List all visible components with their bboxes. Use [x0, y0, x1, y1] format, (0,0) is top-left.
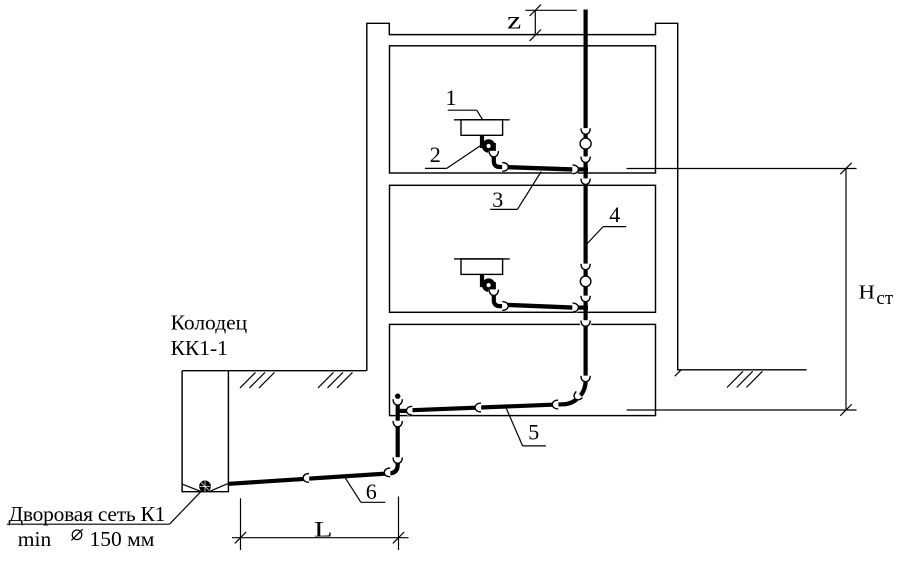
stub into stack floor 3 [577, 167, 589, 171]
bell at branch inlet floor 3 [502, 162, 508, 172]
washbasin floor 3 (label 1) [454, 120, 510, 136]
riser top cap dot [395, 394, 400, 399]
bell at stack tee floor 2 [572, 303, 578, 313]
text min 150 mm with diameter symbol [18, 527, 155, 551]
dimension z: vertical line, top extension, ticks [525, 5, 576, 41]
dimension H_ct: vertical line, extensions, ticks [627, 163, 857, 416]
bell on stack base elbow [572, 391, 583, 402]
svg-text:min: min [18, 527, 52, 551]
tee stub at outlet riser [398, 409, 408, 413]
svg-text:1: 1 [446, 85, 457, 110]
stack socket below revision, floor 2 [580, 296, 591, 302]
svg-text:ст: ст [876, 288, 893, 309]
text Dvorovaya set K1 with underline leader to well [7, 489, 204, 526]
svg-text:2: 2 [430, 142, 441, 167]
bell at outlet pipe right end [552, 400, 558, 410]
room floor 1 (bottom) [390, 324, 656, 415]
socket on riser above elbow [392, 457, 403, 463]
svg-text:5: 5 [528, 420, 539, 445]
building outline with parapets and right ground line [367, 23, 807, 371]
stub into stack floor 2 [577, 306, 589, 310]
stack socket above basement elbow [580, 376, 591, 382]
text Kolodec KK1-1 [171, 311, 248, 361]
svg-text:Н: Н [859, 282, 876, 304]
label 1 with leader [446, 85, 484, 121]
stack socket above revision, floor 3 [580, 128, 591, 134]
bell at yard pipe right end [384, 468, 390, 478]
svg-text:4: 4 [609, 202, 620, 227]
svg-text:z: z [507, 8, 521, 35]
ground hatching right group [727, 371, 762, 387]
bell at branch inlet floor 2 [502, 301, 508, 311]
svg-text:6: 6 [366, 479, 377, 504]
svg-text:Колодец: Колодец [171, 311, 248, 335]
label 6 with leader [345, 478, 385, 504]
label 3 with leader [490, 172, 541, 212]
socket mid outlet pipe 5 [475, 403, 481, 413]
stack socket in floor slab 3/2 [580, 178, 591, 184]
ground tick at right wall base [675, 370, 681, 376]
stack socket in floor slab 2/1 [580, 320, 591, 326]
svg-text:150 мм: 150 мм [90, 527, 155, 551]
socket under riser cap [392, 399, 403, 405]
svg-text:Дворовая сеть К1: Дворовая сеть К1 [9, 502, 166, 526]
well bottom V lines [182, 484, 228, 492]
socket mid yard pipe 6 [303, 473, 309, 483]
socket on trap drop floor 2 [488, 289, 499, 295]
svg-text:L: L [314, 517, 333, 542]
room floor 2 (middle) [390, 185, 656, 312]
ground hatching left group 1 [240, 372, 275, 388]
well inlet dot [199, 481, 211, 493]
sewer stack (label 4) with basement elbow and outlet pipe (label 5) [412, 10, 585, 411]
siphon trap floor 3 (label 2): drain bar, loop ring, outlet elbow [482, 135, 505, 167]
stack socket above revision, floor 2 [580, 264, 591, 270]
siphon trap floor 2: drain bar, loop ring, outlet elbow [482, 274, 505, 306]
label 2 with leader [425, 142, 480, 169]
socket on trap drop floor 3 [488, 151, 499, 157]
dimension L: line, extensions, ticks [232, 497, 409, 551]
bell at outlet pipe left tee [407, 406, 413, 416]
branch pipe floor 2 [508, 305, 573, 308]
outlet riser and yard pipe (label 6) [229, 399, 398, 484]
revision (cleanout) circle floor 3 [580, 138, 591, 149]
bell at stack tee floor 3 [572, 165, 578, 175]
ground hatching left group 2 [318, 372, 353, 388]
label 4 with leader [587, 202, 626, 244]
svg-text:3: 3 [492, 187, 503, 212]
well KK1-1 walls [182, 371, 228, 492]
room floor 3 (top) [390, 46, 656, 173]
label 5 with leader [506, 407, 546, 446]
stack socket below revision, floor 3 [580, 156, 591, 162]
washbasin floor 2 [454, 259, 510, 275]
revision (cleanout) circle floor 2 [580, 276, 591, 287]
ground line left of building [182, 370, 366, 372]
svg-text:КК1-1: КК1-1 [171, 336, 228, 360]
branch pipe floor 3 (label 3) [508, 167, 573, 169]
socket on riser below floor [392, 421, 403, 427]
